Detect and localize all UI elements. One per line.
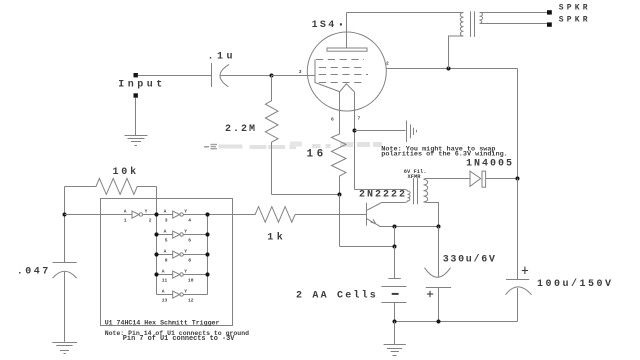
- wire left rail: [64, 187, 66, 263]
- svg-text:9: 9: [165, 258, 168, 264]
- node D (filament right): [353, 129, 357, 133]
- wire rail down to 100u: [517, 179, 519, 280]
- wire node F down: [394, 227, 396, 247]
- node J: [437, 320, 441, 324]
- svg-text:6: 6: [331, 117, 334, 123]
- capacitor C 100u/150V: [506, 280, 532, 322]
- input ground terminal square: [134, 93, 138, 97]
- wire emitter to 330u: [379, 226, 438, 228]
- right bus: [207, 215, 209, 295]
- svg-text:Y: Y: [145, 209, 148, 215]
- node E (diode to rail): [516, 177, 520, 181]
- node row4 right: [205, 272, 209, 276]
- U1D labels: [164, 249, 192, 264]
- inverter U1D: [157, 251, 208, 258]
- resistor R 16 (filament left leg): [332, 92, 347, 195]
- svg-text:11: 11: [162, 278, 168, 284]
- svg-text:Y: Y: [184, 249, 187, 255]
- ground (rotated, near tube): [407, 121, 417, 143]
- node F (emitter junction): [393, 225, 397, 229]
- tube V1 1S4 envelope: [307, 32, 386, 111]
- resistor R 2.2M: [265, 76, 278, 195]
- wire top rail to output transformer: [347, 12, 464, 14]
- node row3 right: [205, 252, 209, 256]
- battery B1 (2 AA cells): [381, 247, 406, 322]
- wire plate lead up: [346, 13, 348, 49]
- svg-text:Y: Y: [184, 229, 187, 235]
- tube filament tent: [340, 84, 355, 92]
- svg-text:1S4: 1S4: [312, 20, 337, 31]
- svg-text:5: 5: [165, 238, 168, 244]
- svg-text:2: 2: [386, 61, 389, 67]
- svg-text:polarities of the 6.3V winding: polarities of the 6.3V winding.: [381, 150, 507, 158]
- input terminal square: [134, 73, 138, 77]
- inverter U1B: [157, 211, 233, 218]
- plus sign 330u: [427, 291, 433, 297]
- wire 2.2M bottom to node B: [272, 194, 340, 196]
- svg-text:4: 4: [188, 218, 191, 224]
- svg-text:2.2M: 2.2M: [225, 124, 257, 135]
- wire secondary top to diode: [424, 178, 471, 181]
- wire battery ground stem: [394, 322, 396, 345]
- wire secondary bottom to SPKR: [480, 23, 548, 25]
- svg-text:A: A: [164, 209, 167, 215]
- U1E labels: [162, 269, 194, 284]
- node I: [393, 320, 397, 324]
- svg-text:2: 2: [149, 218, 152, 224]
- wire rail to inverter row1: [65, 214, 133, 216]
- wire 10k to left bus: [156, 187, 158, 215]
- node B: [338, 193, 342, 197]
- output transformer secondary: [480, 13, 483, 24]
- tube grid dashed rows: [316, 60, 368, 83]
- wire filament leg to 6V transformer primary: [355, 189, 404, 191]
- wire secondary top to SPKR: [480, 12, 548, 14]
- svg-text:7: 7: [358, 116, 361, 122]
- svg-text:330u/6V: 330u/6V: [443, 253, 497, 265]
- svg-text:A: A: [162, 269, 165, 275]
- wire input to capacitor: [138, 75, 211, 77]
- svg-text:U1 74HC14 Hex Schmitt Trigger: U1 74HC14 Hex Schmitt Trigger: [105, 319, 220, 326]
- svg-text:A: A: [164, 249, 167, 255]
- inverter U1F: [157, 291, 208, 298]
- capacitor C .047: [53, 263, 77, 342]
- pin 4 dot: [340, 23, 342, 25]
- svg-text:8: 8: [188, 258, 191, 264]
- capacitor C .1u: [212, 63, 230, 87]
- svg-text:Pin 7 of U1 connects to -3V: Pin 7 of U1 connects to -3V: [123, 335, 236, 343]
- watermark: [204, 142, 382, 150]
- svg-text:12: 12: [188, 298, 194, 304]
- U1C labels: [164, 229, 192, 244]
- svg-text:SPKR: SPKR: [559, 4, 591, 13]
- wire right rail down: [517, 69, 519, 179]
- svg-text:.1u: .1u: [208, 52, 237, 63]
- output transformer T1 primary: [449, 13, 464, 69]
- U1A labels: [124, 209, 152, 224]
- svg-text:3: 3: [299, 69, 302, 75]
- wire node A to tube grid: [272, 75, 316, 77]
- svg-text:13: 13: [162, 298, 168, 304]
- wire secondary bottom: [424, 202, 439, 227]
- svg-text:16: 16: [307, 149, 327, 161]
- node A: [270, 74, 274, 78]
- ground (left): [52, 343, 77, 354]
- svg-text:10k: 10k: [113, 166, 139, 178]
- svg-text:2N2222: 2N2222: [359, 190, 407, 201]
- svg-text:100u/150V: 100u/150V: [537, 278, 614, 290]
- svg-text:SPKR: SPKR: [559, 16, 591, 25]
- tube grid bracket: [315, 60, 340, 92]
- node row4 left: [154, 272, 158, 276]
- svg-text:A: A: [124, 209, 127, 215]
- svg-text:Y: Y: [184, 209, 187, 215]
- svg-text:XFMR: XFMR: [408, 174, 422, 180]
- SPKR terminal square 2: [547, 22, 552, 26]
- wire 1k to base: [295, 214, 366, 216]
- wire bottom rail: [395, 321, 518, 323]
- node row2 right: [205, 232, 209, 236]
- tube plate: [327, 48, 367, 51]
- node row1 right: [205, 212, 209, 216]
- 6V fil transformer T2 primary: [381, 190, 410, 203]
- wire capacitor to node A: [221, 75, 272, 77]
- 6V transformer core: [414, 178, 418, 204]
- ground (input): [125, 136, 148, 146]
- ground (battery): [384, 345, 406, 356]
- diode D1 1N4005: [470, 171, 518, 187]
- node G: [393, 245, 397, 249]
- plus sign 100u: [522, 267, 528, 274]
- wire node D to chassis ground: [355, 130, 406, 132]
- svg-text:.047: .047: [17, 266, 51, 277]
- SPKR terminal square 1: [547, 10, 552, 14]
- capacitor C 330u/6V: [425, 227, 452, 322]
- node K (rail): [63, 213, 67, 217]
- U1F labels: [162, 289, 194, 304]
- svg-text:2 AA Cells: 2 AA Cells: [296, 289, 378, 301]
- node row2 left: [154, 232, 158, 236]
- output transformer core: [471, 11, 475, 37]
- svg-text:Y: Y: [184, 269, 187, 275]
- svg-text:10: 10: [188, 278, 194, 284]
- node C (transformer tap): [447, 67, 451, 71]
- inverter U1C: [157, 231, 208, 238]
- svg-text:A: A: [164, 229, 167, 235]
- svg-text:1: 1: [124, 218, 127, 224]
- wire to emitter return: [340, 246, 395, 248]
- svg-text:3: 3: [165, 218, 168, 224]
- svg-text:Input: Input: [118, 79, 166, 90]
- U1 74HC14 box: [101, 199, 233, 326]
- node H (330u top): [437, 225, 441, 229]
- inverter U1A: [132, 211, 157, 218]
- wire node B down: [339, 195, 341, 247]
- U1B labels: [164, 209, 192, 224]
- svg-text:Y: Y: [184, 289, 187, 295]
- svg-text:1N4005: 1N4005: [466, 158, 514, 169]
- svg-text:6: 6: [188, 238, 191, 244]
- resistor R 1k: [233, 207, 296, 223]
- svg-text:1k: 1k: [267, 231, 286, 243]
- inverter U1E: [157, 271, 208, 278]
- wire filament right leg down: [354, 92, 356, 190]
- svg-text:A: A: [162, 289, 165, 295]
- 6V transformer secondary: [424, 179, 428, 202]
- left bus: [156, 215, 158, 295]
- wire input stub down: [135, 98, 137, 135]
- resistor R 10k: [65, 178, 157, 194]
- node row1 left: [154, 212, 158, 216]
- wire tube plate-side to right rail: [386, 68, 517, 70]
- transistor Q1 2N2222: [367, 203, 381, 227]
- node row3 left: [154, 252, 158, 256]
